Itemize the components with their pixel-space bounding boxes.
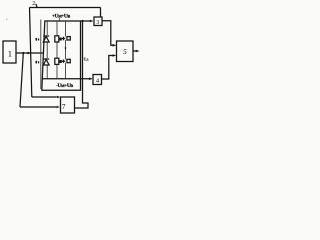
svg-text:Uд: Uд [84, 57, 89, 62]
svg-text:+Uм+Uв: +Uм+Uв [52, 14, 70, 20]
svg-text:7: 7 [62, 102, 66, 111]
svg-text:5: 5 [123, 47, 127, 56]
svg-text:1: 1 [8, 49, 12, 59]
svg-text:2: 2 [32, 1, 35, 7]
svg-text:3: 3 [96, 20, 99, 26]
svg-text:4: 4 [96, 79, 99, 85]
svg-text:-Uм+Uв: -Uм+Uв [56, 83, 73, 89]
